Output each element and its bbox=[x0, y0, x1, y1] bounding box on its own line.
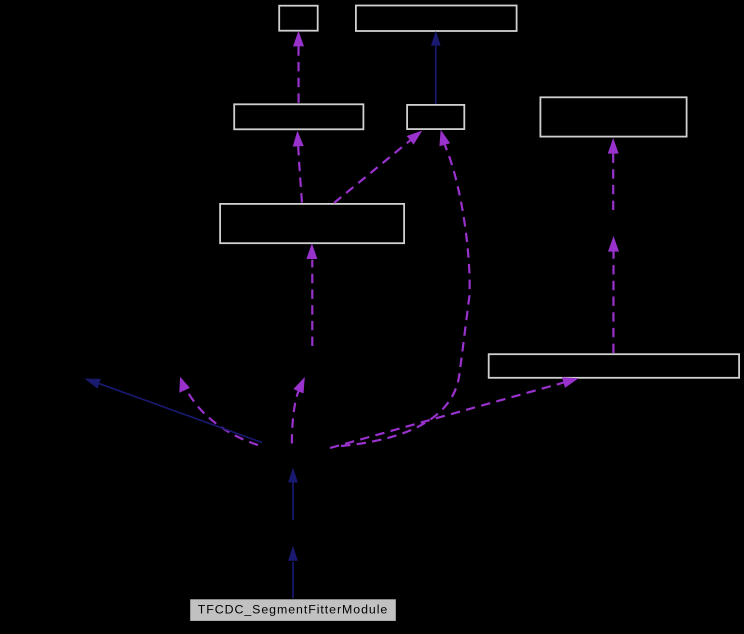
edge node-F to box5 (dashed usage arrow, vertical) bbox=[608, 138, 619, 210]
edge node-B to box7 (dashed usage arrow, diagonal) bbox=[330, 377, 579, 448]
node box5 (second row right two-line class box) bbox=[540, 97, 686, 136]
node box8 TFCDC_SegmentFitterModule (current node, gray filled) bbox=[190, 599, 397, 622]
edge box3 to box1 (dashed usage arrow) bbox=[293, 31, 304, 104]
edge node-B to node-D (dashed usage arrow, curve up-left) bbox=[179, 377, 258, 445]
edge node-B to node-C (solid inheritance arrow, diagonal) bbox=[85, 379, 263, 443]
edge box6 to box3 (dashed usage arrow) bbox=[293, 131, 304, 203]
edge node-B to box4 (dashed usage arrow, long S-curve) bbox=[341, 130, 470, 446]
svg-text:TFCDC_SegmentFitterModule: TFCDC_SegmentFitterModule bbox=[198, 603, 388, 617]
node box3 (second row left class box) bbox=[234, 104, 363, 129]
node box6 (third row two-line class box) bbox=[220, 204, 404, 243]
edge node-E to box6 (dashed usage arrow, vertical) bbox=[306, 243, 317, 346]
edge box4 to box2 (solid inheritance arrow) bbox=[431, 31, 441, 104]
node box1 (top small class box) bbox=[279, 6, 318, 31]
edge node-A to node-B (solid inheritance arrow, vertical) bbox=[288, 468, 298, 521]
node box4 (second row small class box) bbox=[407, 105, 464, 129]
node box2 (top wide class box) bbox=[356, 6, 517, 32]
edge box6 to box4 (dashed usage arrow, diagonal) bbox=[334, 131, 422, 204]
edge node-B to node-E (dashed usage arrow, short curve) bbox=[292, 377, 305, 444]
edge box7 to node-F (dashed usage arrow, vertical) bbox=[608, 236, 619, 353]
node box7 (fourth row right wide class box) bbox=[489, 354, 739, 378]
edge box8 to node-A (solid inheritance arrow, vertical) bbox=[288, 546, 298, 598]
